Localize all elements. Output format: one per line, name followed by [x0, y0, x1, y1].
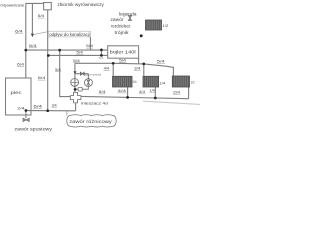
- svg-text:Odpowietrzanie: Odpowietrzanie: [0, 2, 25, 7]
- svg-text:1/4: 1/4: [150, 87, 156, 92]
- svg-text:5/4: 5/4: [76, 50, 83, 55]
- svg-text:6/4: 6/4: [38, 75, 47, 80]
- svg-text:zawór różnicowy: zawór różnicowy: [69, 119, 113, 124]
- svg-text:3/4: 3/4: [52, 102, 58, 107]
- svg-text:6/4: 6/4: [15, 28, 24, 33]
- svg-text:5/4: 5/4: [86, 43, 94, 48]
- svg-text:bojler 140l: bojler 140l: [110, 50, 136, 56]
- svg-text:5/4: 5/4: [99, 89, 107, 94]
- svg-text:6/4: 6/4: [38, 13, 45, 18]
- svg-text:1/2: 1/2: [191, 80, 195, 84]
- svg-text:3/4: 3/4: [134, 66, 141, 71]
- svg-text:piec: piec: [11, 90, 23, 95]
- svg-text:1/4: 1/4: [159, 81, 165, 85]
- svg-text:trójnik: trójnik: [115, 30, 130, 35]
- svg-text:2/4: 2/4: [173, 89, 181, 94]
- svg-text:6/4: 6/4: [33, 103, 43, 108]
- svg-text:zbiornik wyrównawczy: zbiornik wyrównawczy: [57, 2, 104, 8]
- svg-text:zawór: zawór: [111, 17, 125, 22]
- svg-text:(pompka): (pompka): [85, 73, 102, 77]
- svg-text:rozdzielacz: rozdzielacz: [111, 23, 131, 28]
- svg-text:5/4: 5/4: [157, 58, 166, 63]
- svg-text:1/2: 1/2: [163, 24, 169, 28]
- svg-text:mieszacz 4d: mieszacz 4d: [81, 100, 108, 105]
- svg-text:4/4: 4/4: [104, 65, 110, 70]
- svg-text:6/4: 6/4: [17, 62, 25, 67]
- svg-text:5/4: 5/4: [55, 67, 61, 72]
- svg-text:5/4: 5/4: [73, 58, 81, 63]
- svg-text:6/4: 6/4: [29, 43, 38, 48]
- svg-text:zawór spustowy: zawór spustowy: [15, 127, 53, 132]
- svg-text:4/4: 4/4: [139, 89, 146, 94]
- svg-text:1/4: 1/4: [132, 80, 136, 84]
- svg-text:5/4: 5/4: [99, 56, 104, 60]
- svg-text:5/4: 5/4: [119, 57, 127, 62]
- svg-text:odpływ do kanalizacji: odpływ do kanalizacji: [49, 32, 89, 37]
- svg-text:4/4: 4/4: [118, 88, 128, 93]
- svg-text:2/4: 2/4: [17, 106, 25, 111]
